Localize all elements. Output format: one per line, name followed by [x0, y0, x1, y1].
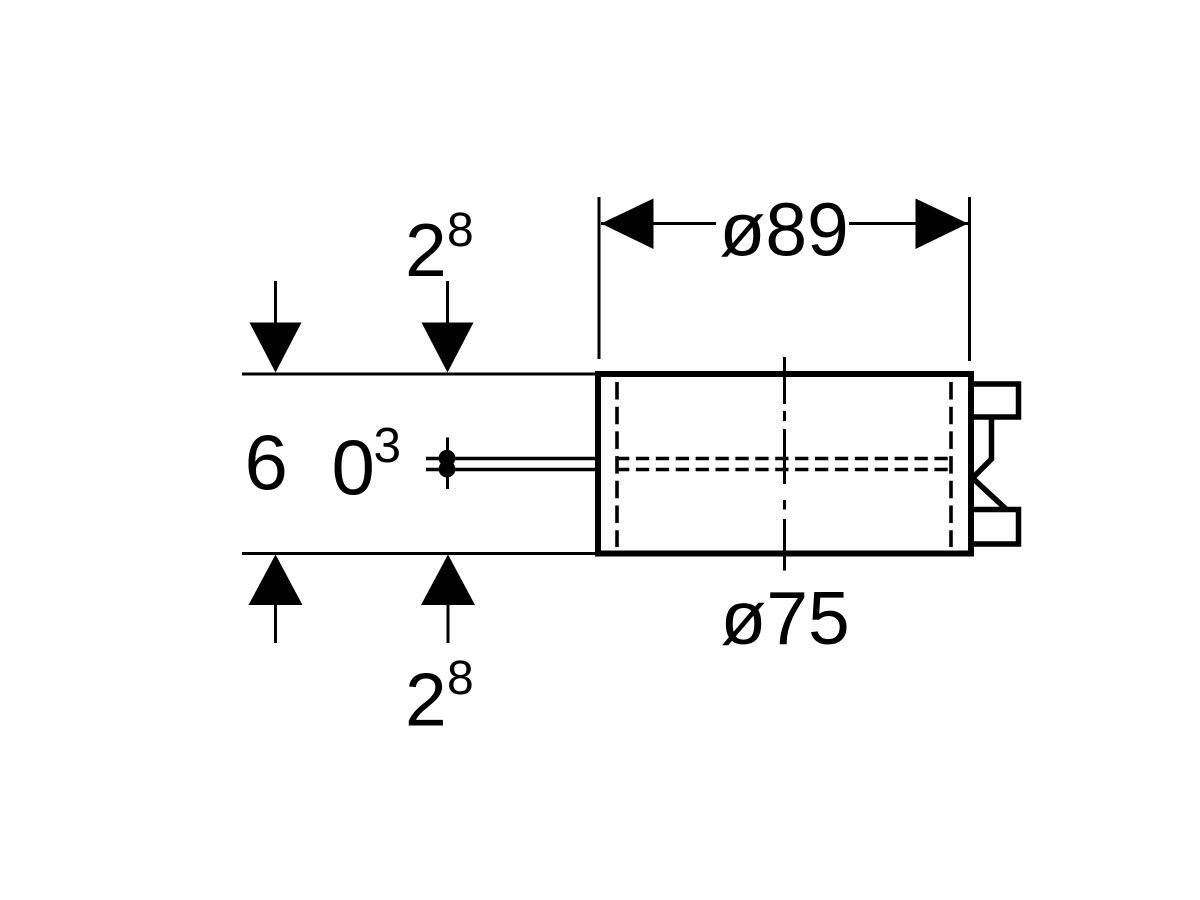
svg-text:3: 3 — [374, 418, 402, 473]
snap tab top — [971, 384, 1019, 417]
arrow down right — [422, 281, 474, 373]
snap tab bottom — [971, 510, 1019, 545]
arrow up right — [421, 555, 475, 644]
svg-text:ø75: ø75 — [721, 576, 850, 660]
svg-text:2: 2 — [405, 208, 447, 292]
inner dashed vertical right — [949, 382, 953, 547]
svg-text:2: 2 — [405, 658, 447, 742]
sleeve body outline — [598, 374, 971, 554]
label 2^8 top — [405, 204, 474, 292]
wall line top — [242, 373, 598, 376]
dimension ø89 arrowhead right — [916, 199, 969, 250]
pipe double line lower — [426, 468, 598, 472]
dimension ø89 line right segment — [849, 222, 968, 225]
pipe double line upper — [426, 457, 598, 461]
center line (dash-dot) — [783, 357, 786, 571]
svg-text:6: 6 — [245, 418, 288, 506]
svg-text:8: 8 — [447, 204, 474, 257]
snap hook — [973, 415, 1007, 510]
dimension ø89 line left segment — [601, 222, 716, 225]
weld point dots — [439, 450, 456, 478]
dimension ø89 arrowhead left — [601, 199, 654, 250]
arrow up left — [249, 555, 303, 644]
label 2^8 bottom — [405, 652, 474, 742]
weld point vertical line — [446, 438, 449, 490]
svg-text:ø89: ø89 — [720, 188, 849, 272]
wall line bottom — [242, 552, 598, 555]
dimension ø89 extension line left — [598, 197, 601, 359]
svg-text:0: 0 — [332, 423, 375, 511]
inner dashed vertical left — [615, 382, 619, 547]
inner dashed horizontal lower — [616, 468, 953, 471]
inner dashed horizontal upper — [616, 457, 953, 460]
arrow down left — [250, 281, 302, 373]
svg-text:8: 8 — [447, 652, 474, 705]
label 0^3 — [332, 418, 402, 511]
dimension ø89 extension line right — [968, 197, 971, 361]
